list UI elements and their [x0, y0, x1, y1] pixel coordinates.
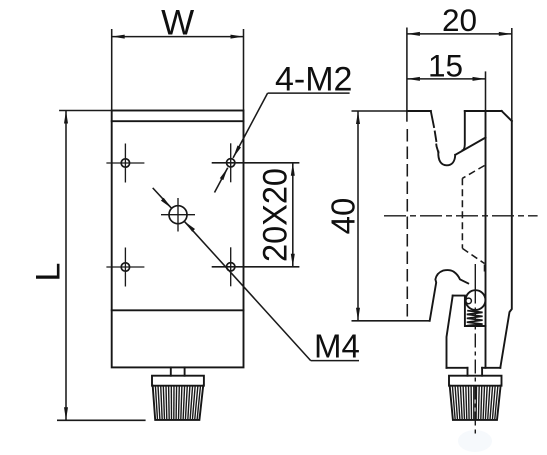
svg-text:M4: M4	[314, 328, 360, 365]
svg-text:15: 15	[428, 48, 463, 84]
svg-text:20X20: 20X20	[257, 168, 295, 262]
svg-text:20: 20	[442, 2, 477, 38]
svg-text:W: W	[161, 4, 194, 43]
svg-text:L: L	[29, 263, 67, 282]
svg-text:40: 40	[325, 198, 362, 235]
svg-text:4-M2: 4-M2	[275, 61, 352, 99]
